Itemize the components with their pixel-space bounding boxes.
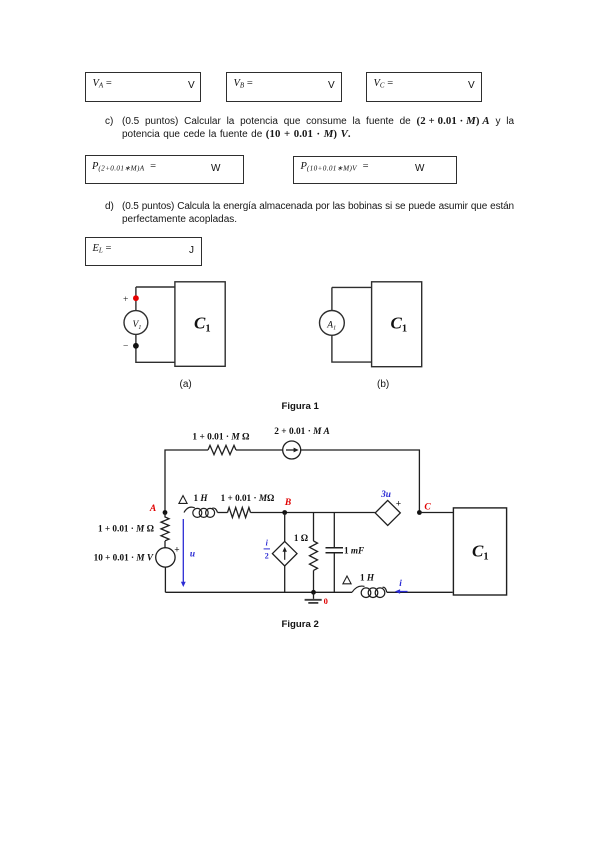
svg-text:+: +: [174, 546, 179, 556]
box C1 (a): [175, 282, 225, 367]
svg-text:0: 0: [324, 596, 328, 606]
dependent source 3u diamond: [375, 500, 400, 525]
label L2 1H: [360, 573, 375, 583]
wire left lower (b): [332, 335, 372, 362]
node B: [282, 510, 287, 515]
svg-text:i: i: [266, 539, 269, 548]
svg-text:1 H: 1 H: [360, 573, 375, 583]
svg-text:2: 2: [265, 552, 269, 561]
label V1: [133, 320, 142, 331]
svg-text:10 + 0.01 · M V: 10 + 0.01 · M V: [94, 553, 154, 563]
dot mark delta L2: [343, 576, 351, 584]
voltage source V1 (a): [124, 311, 148, 335]
dot mark delta L1: [179, 496, 187, 504]
svg-text:B: B: [284, 498, 291, 508]
minus terminal label (a): [123, 342, 128, 352]
label C2 1mF: [344, 546, 364, 556]
svg-text:1 H: 1 H: [193, 493, 208, 503]
svg-text:i: i: [399, 579, 402, 589]
figure sublabel (a): [180, 378, 192, 391]
resistor R4 1 ohm: [310, 541, 318, 570]
svg-text:−: −: [123, 342, 128, 352]
wire top-left vertical A up: [165, 450, 208, 513]
wire L2 to box: [387, 591, 453, 593]
answer box VB: [226, 72, 342, 103]
label C1 (a): [194, 314, 211, 335]
arrow inside i/2: [284, 551, 286, 560]
label L1 1H: [193, 493, 208, 503]
plus of 3u: [396, 500, 401, 510]
label I1: [274, 427, 330, 437]
wire top mid: [236, 449, 283, 451]
label R3: [98, 524, 154, 534]
label i: [399, 579, 402, 589]
box C1 (fig2): [453, 508, 506, 595]
node C: [417, 510, 422, 515]
resistor Rtop 1+0.01*M ohm: [208, 445, 236, 454]
wire R4 bottom: [313, 570, 315, 592]
ground node: [311, 590, 316, 595]
current source I1 2+0.01*M A: [283, 441, 301, 459]
wire top right and down to C: [301, 450, 420, 513]
wire bottom: [165, 591, 352, 593]
plus terminal label (a): [123, 295, 128, 305]
label A1: [326, 320, 336, 331]
current source A1 (b): [320, 311, 345, 336]
answer box VC: [366, 72, 482, 103]
label node B: [284, 498, 291, 508]
item d): [105, 200, 114, 213]
label node C: [424, 503, 431, 513]
label R2: [221, 493, 275, 503]
label i/2 (blue fraction): [264, 539, 270, 561]
resistor R3 left 1+0.01*M ohm vertical: [161, 513, 169, 541]
label u: [190, 550, 195, 560]
wire R2 to B: [251, 512, 375, 514]
answer box P2: [293, 156, 457, 185]
wire B down to i/2 source: [284, 513, 286, 542]
svg-text:1 + 0.01 · M Ω: 1 + 0.01 · M Ω: [98, 524, 154, 534]
figure sublabel (b): [377, 378, 389, 391]
svg-text:u: u: [190, 550, 195, 560]
label Rtop: [192, 433, 250, 443]
item c): [105, 115, 113, 128]
capacitor C2 1mF: [326, 513, 344, 593]
black terminal node (a): [133, 343, 139, 349]
label C1 (fig2): [472, 542, 489, 563]
wire C to box: [419, 512, 453, 514]
label R4 1 ohm: [294, 533, 308, 543]
resistor R2 1+0.01*M ohm: [228, 508, 251, 518]
wire L1 to R2: [218, 512, 228, 514]
svg-text:1 mF: 1 mF: [344, 546, 364, 556]
Figura 2 caption: [282, 619, 319, 630]
svg-text:1 + 0.01 · MΩ: 1 + 0.01 · MΩ: [221, 493, 275, 503]
arrowhead of I1: [294, 448, 299, 453]
inductor L1 1H: [184, 507, 218, 517]
arrow i (blue): [400, 591, 408, 593]
svg-text:3u: 3u: [380, 490, 391, 500]
answer box VA: [85, 72, 201, 103]
svg-text:2 + 0.01 · M A: 2 + 0.01 · M A: [274, 427, 330, 437]
wire i/2 to bottom: [284, 566, 286, 592]
svg-text:+: +: [123, 295, 128, 305]
answer box EL: [85, 237, 202, 266]
label node A: [149, 504, 156, 514]
svg-text:1 + 0.01 · M Ω: 1 + 0.01 · M Ω: [192, 433, 250, 443]
answer box P1: [85, 155, 245, 184]
box C1 (b): [372, 282, 422, 367]
wire left upper (b): [331, 287, 333, 310]
node A: [163, 510, 168, 515]
label 3u: [380, 490, 391, 500]
red terminal node (a): [133, 295, 139, 301]
ground symbol: [305, 592, 322, 603]
svg-text:1 Ω: 1 Ω: [294, 533, 308, 543]
plus of Vs: [174, 546, 179, 556]
svg-text:C: C: [424, 503, 431, 513]
svg-text:+: +: [396, 500, 401, 510]
inductor L2 1H: [352, 586, 387, 597]
wire left lower (a): [136, 334, 175, 362]
wire left upper (a): [135, 287, 137, 311]
label Vs: [94, 553, 154, 563]
label ground 0: [324, 596, 328, 606]
voltage source Vs 10+0.01*M V: [156, 541, 175, 592]
Figura 1 caption: [282, 401, 319, 412]
arrow u (blue): [182, 519, 184, 583]
svg-text:A: A: [149, 504, 156, 514]
dependent source i/2 diamond: [272, 541, 297, 566]
wire top (a): [136, 286, 175, 288]
wire 1ohm branch top: [313, 513, 315, 542]
label C1 (b): [391, 314, 408, 335]
wire top (b): [332, 286, 372, 288]
